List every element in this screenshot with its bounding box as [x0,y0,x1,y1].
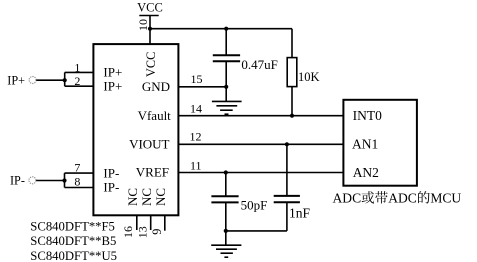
svg-text:ADC: ADC [333,191,362,206]
svg-text:VCC: VCC [144,52,158,77]
junction C2 / C3 / ground [224,229,228,233]
capacitor C1 0.47uF [213,29,278,87]
ground (upper) [212,87,242,114]
wire pin 11 VREF to AN2 [178,172,343,174]
pin stub 9 [164,215,166,230]
svg-text:0.47uF: 0.47uF [241,57,277,72]
svg-text:Vfault: Vfault [138,108,172,123]
svg-text:8: 8 [74,175,80,189]
svg-text:IP-: IP- [10,174,25,188]
wire VCC rail [150,28,292,30]
svg-text:MCU: MCU [430,191,461,206]
svg-text:10: 10 [136,19,150,31]
junction VCC rail / C1 [224,27,228,31]
pin stub 13 [150,215,152,230]
svg-text:AN1: AN1 [352,137,378,152]
svg-text:11: 11 [190,158,202,172]
svg-text:NC: NC [125,188,140,206]
svg-text:IP+: IP+ [103,78,122,93]
svg-text:VIOUT: VIOUT [129,136,169,151]
IC U1 SC840DFT body [93,44,178,215]
ground (lower) [211,231,241,257]
svg-text:12: 12 [190,130,202,144]
junction pin11 / C2 [224,170,228,174]
svg-text:10K: 10K [298,70,320,84]
svg-text:SC840DFT**B5: SC840DFT**B5 [30,234,116,248]
junction IP+ [63,78,67,82]
svg-text:SC840DFT**U5: SC840DFT**U5 [30,249,117,262]
svg-text:13: 13 [136,226,150,238]
svg-text:VCC: VCC [137,0,163,14]
wire IP- to pins 7,8 [36,173,93,187]
wire IP+ to pins 1,2 [36,72,93,86]
junction IP- [62,178,66,182]
svg-text:15: 15 [191,72,203,86]
svg-text:9: 9 [150,229,164,235]
svg-text:AN2: AN2 [353,165,379,180]
capacitor C3 1nF [274,144,311,231]
wire pin 14 Vfault to INT0 [178,115,343,117]
MCU box [343,100,417,186]
svg-text:SC840DFT**F5: SC840DFT**F5 [30,220,115,234]
terminal IP+ [7,73,36,87]
svg-text:14: 14 [190,102,202,116]
svg-text:IP-: IP- [103,180,119,195]
svg-text:INT0: INT0 [353,108,382,123]
svg-text:1: 1 [74,60,80,74]
junction VCC stem / rail [148,27,152,31]
svg-text:VREF: VREF [136,165,169,180]
svg-text:IP-: IP- [103,165,119,180]
svg-text:7: 7 [74,161,80,175]
pin stub 16 [136,215,138,230]
svg-text:2: 2 [74,74,80,88]
resistor R1 10K [287,29,319,116]
terminal IP- [10,174,36,188]
wire pin 12 VIOUT to AN1 [178,143,343,145]
capacitor C2 50pF [211,173,267,231]
svg-text:NC: NC [139,188,154,206]
svg-text:ADC: ADC [388,191,417,206]
junction pin14 / R1 [290,114,294,118]
svg-text:GND: GND [142,79,170,94]
wire C3 to ground node [226,230,287,232]
power symbol VCC [137,0,163,28]
wire VCC stem to IC pin 10 [149,29,151,44]
MCU caption: ADC or MCU with ADC [333,191,462,206]
junction pin12 / C3 [285,142,289,146]
svg-text:NC: NC [153,188,168,206]
svg-text:16: 16 [121,226,135,238]
svg-text:IP+: IP+ [7,73,25,87]
wire pin 15 GND net [178,86,226,88]
junction pin15 / C1 / ground [224,85,228,89]
svg-text:1nF: 1nF [289,205,311,220]
svg-text:50pF: 50pF [241,198,268,213]
